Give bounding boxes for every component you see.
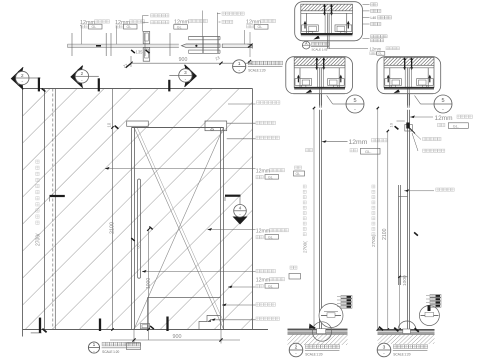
svg-text:3: 3 — [184, 70, 187, 75]
svg-text:2: 2 — [21, 73, 24, 78]
svg-text:2700(: 2700( — [303, 241, 308, 253]
svg-text:SCALE 1:05: SCALE 1:05 — [312, 47, 328, 51]
svg-text:12mm: 12mm — [256, 229, 270, 235]
svg-text:GL: GL — [268, 235, 273, 239]
svg-text:GL: GL — [296, 172, 301, 176]
svg-text:GL.: GL. — [453, 124, 459, 128]
svg-text:GL: GL — [92, 25, 97, 29]
svg-text:1000: 1000 — [402, 275, 408, 286]
svg-text:135: 135 — [136, 50, 144, 55]
svg-text:1000: 1000 — [146, 278, 152, 289]
svg-text:10: 10 — [107, 122, 112, 127]
svg-text:SCALE: SCALE — [393, 352, 403, 356]
svg-text:1:20: 1:20 — [404, 352, 410, 356]
svg-text:12mm: 12mm — [370, 46, 382, 51]
svg-text:GL: GL — [378, 52, 382, 56]
svg-text:SCALE: SCALE — [305, 352, 315, 356]
svg-text:60: 60 — [136, 245, 140, 249]
svg-text:10: 10 — [388, 122, 393, 127]
svg-text:5: 5 — [441, 98, 444, 104]
svg-text:2100: 2100 — [110, 222, 116, 234]
svg-text:5: 5 — [353, 98, 356, 104]
svg-text:SCALE: SCALE — [248, 69, 258, 73]
svg-text:1:20: 1:20 — [113, 350, 119, 354]
svg-text:4: 4 — [239, 206, 242, 211]
svg-text:GL: GL — [258, 25, 263, 29]
svg-text:12mm: 12mm — [256, 169, 270, 175]
svg-text:12mm: 12mm — [256, 278, 270, 284]
svg-text:GL.: GL. — [365, 149, 371, 154]
svg-text:2: 2 — [81, 71, 84, 76]
svg-text:1: 1 — [93, 342, 96, 348]
svg-text:2700(: 2700( — [36, 233, 42, 246]
svg-text:900: 900 — [173, 334, 182, 340]
svg-text:GL: GL — [268, 175, 273, 179]
svg-text:1: 1 — [238, 61, 241, 67]
svg-text:1:20: 1:20 — [316, 352, 322, 356]
svg-text:12mm: 12mm — [349, 139, 368, 146]
svg-text:1:20: 1:20 — [259, 69, 265, 73]
svg-text:900: 900 — [179, 57, 188, 63]
svg-text:GL: GL — [177, 25, 182, 29]
svg-text:2700(: 2700( — [371, 235, 376, 247]
svg-text:3: 3 — [383, 345, 386, 351]
svg-text:2: 2 — [295, 345, 298, 351]
svg-text:GL: GL — [127, 25, 132, 29]
svg-text:GL: GL — [268, 284, 273, 288]
svg-text:L40: L40 — [371, 16, 377, 20]
svg-text:12mm: 12mm — [435, 115, 453, 122]
svg-text:SCALE: SCALE — [102, 350, 112, 354]
svg-text:2100: 2100 — [382, 228, 388, 240]
